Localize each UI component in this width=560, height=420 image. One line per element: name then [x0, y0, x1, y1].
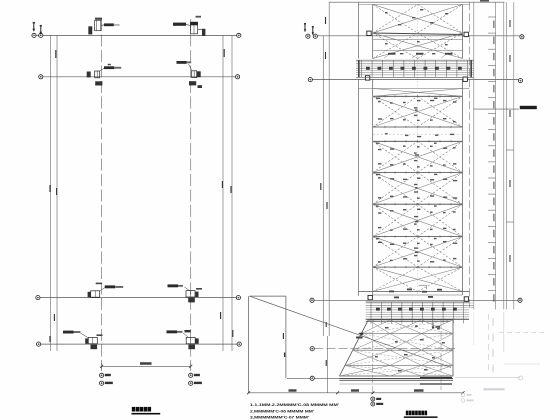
svg-text:3.MMMMMMM'C-07 MMM': 3.MMMMMMM'C-07 MMM' [250, 415, 309, 419]
svg-text:2.MMMMM'C-06 MMMM MM': 2.MMMMM'C-06 MMMM MM' [250, 410, 314, 414]
svg-text:1.1-1MM.2-2MMMM'C-08 MMMM MM': 1.1-1MM.2-2MMMM'C-08 MMMM MM' [250, 403, 339, 407]
